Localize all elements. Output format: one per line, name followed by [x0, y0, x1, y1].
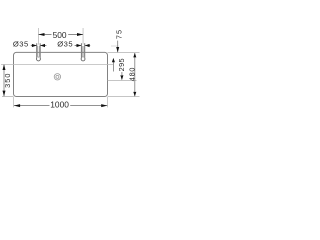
- right tap hole slot inner: [82, 46, 84, 57]
- dimension Ø35 right: tail and right-pointing arrow: [75, 45, 82, 47]
- dimension 75 bottom arrow: [116, 47, 119, 52]
- dimension Ø35 right: left-pointing arrow and tail: [85, 45, 90, 47]
- left tap hole slot outer: [37, 43, 41, 61]
- back edge right extension (row 52.5): [108, 52, 140, 54]
- dimension 480 top arrow: [133, 53, 136, 58]
- dimension 350 bottom arrow: [3, 91, 6, 97]
- dimension 500 left arrow: [38, 33, 44, 36]
- dimension 295 top arrow: [112, 58, 115, 62]
- svg-text:350: 350: [3, 72, 12, 87]
- back edge extension line (row 46, for 75 dim): [111, 45, 119, 47]
- dimension 295 line: [112, 62, 114, 72]
- svg-text:Ø35: Ø35: [57, 39, 73, 48]
- shelf front edge line with extensions (row 64.5): [1, 64, 113, 66]
- svg-text:Ø35: Ø35: [13, 39, 29, 48]
- dimension 1000 line left segment: [14, 105, 50, 107]
- dimension 75 line: [117, 41, 119, 53]
- dimension 350 line: [3, 65, 5, 97]
- dimension 500 right arrow: [77, 33, 83, 36]
- dimension 480 bottom arrow: [133, 92, 136, 97]
- dimension Ø35 left: tail and right-pointing arrow: [31, 45, 37, 47]
- dimension 480 line: [134, 53, 136, 96]
- drain centre extension line (row 80.5): [108, 79, 137, 81]
- drain inner circle: [56, 75, 59, 78]
- svg-text:295: 295: [117, 58, 126, 71]
- dimension 1000 line right segment: [70, 105, 107, 107]
- dimension 1000 left arrow: [14, 104, 20, 107]
- dimension 1000 right arrow: [101, 104, 107, 107]
- wire: extension line up from left tap hole center: [37, 28, 39, 45]
- extension line down from basin left edge: [13, 97, 15, 107]
- wire: extension line up from right tap hole center: [82, 28, 84, 45]
- front edge left extension (row 96.5): [2, 96, 14, 98]
- left tap hole slot inner: [38, 46, 40, 57]
- drain outer circle: [54, 74, 60, 80]
- extension line down from basin right edge: [107, 97, 109, 107]
- dimension 295 bottom arrow: [120, 75, 123, 80]
- dimension 500 line left segment: [38, 34, 51, 36]
- svg-text:1000: 1000: [50, 100, 69, 110]
- front edge right extension (row 96.5): [108, 96, 140, 98]
- dimension 350 top arrow: [3, 64, 6, 70]
- right tap hole slot outer: [81, 43, 85, 61]
- basin outer rounded rectangle (plan view 1000x480): [14, 52, 108, 96]
- dimension Ø35 left: left-pointing arrow and tail: [40, 45, 46, 47]
- svg-text:480: 480: [128, 67, 137, 82]
- svg-text:75: 75: [115, 29, 124, 39]
- dimension 500 line right segment: [68, 34, 83, 36]
